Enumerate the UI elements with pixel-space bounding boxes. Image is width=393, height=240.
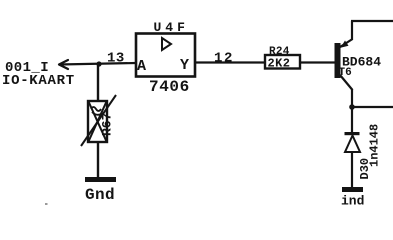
wire gate output Y to R24 — [195, 61, 265, 63]
junction node — [96, 61, 101, 66]
svg-text:7406: 7406 — [149, 78, 190, 96]
wire junction to R67 — [97, 64, 99, 102]
resistor R67 body — [88, 101, 107, 142]
diode D30 cathode bar — [345, 132, 360, 135]
wire R67 to Gnd — [97, 142, 99, 178]
svg-text:1n4148: 1n4148 — [368, 124, 382, 167]
ground symbol ind — [342, 187, 363, 192]
svg-text:13: 13 — [107, 51, 125, 67]
resistor R67 value squiggle — [91, 107, 103, 115]
wire from arrow to gate input A — [59, 63, 136, 65]
wire emitter up — [351, 21, 353, 40]
svg-text:T6: T6 — [339, 67, 352, 79]
resistor R67 strike line — [81, 95, 116, 146]
transistor emitter arrow (PNP, pointing to base) — [341, 41, 349, 48]
resistor R24 body — [265, 55, 300, 69]
svg-text:IO-KAART: IO-KAART — [2, 73, 75, 89]
op-amp gate U4F body (7406 buffer) — [136, 34, 195, 77]
wire R24 to transistor base — [300, 61, 335, 63]
transistor T6 base bar — [335, 43, 341, 78]
ground symbol Gnd — [85, 177, 116, 182]
transistor collector line — [340, 75, 353, 90]
wire collector down to diode — [351, 89, 353, 133]
resistor R67 cross-out X — [89, 102, 107, 142]
wire diode to ground — [351, 152, 353, 188]
transistor emitter line — [340, 39, 353, 47]
wire collector junction to right edge — [352, 106, 393, 108]
wire arrowhead at net 001_I — [59, 60, 68, 69]
gate buffer triangle symbol — [162, 38, 171, 50]
svg-text:ind: ind — [341, 194, 364, 209]
junction node collector — [349, 104, 355, 110]
noise speck — [45, 203, 48, 205]
svg-text:Gnd: Gnd — [85, 186, 115, 204]
svg-text:R67: R67 — [100, 113, 115, 136]
svg-text:Y: Y — [180, 57, 189, 74]
svg-text:2K2: 2K2 — [268, 57, 291, 71]
svg-text:A: A — [137, 58, 146, 75]
diode D30 triangle — [345, 136, 360, 153]
wire top rail to right edge — [351, 20, 393, 22]
svg-text:U4F: U4F — [154, 20, 189, 35]
svg-text:12: 12 — [214, 51, 234, 67]
